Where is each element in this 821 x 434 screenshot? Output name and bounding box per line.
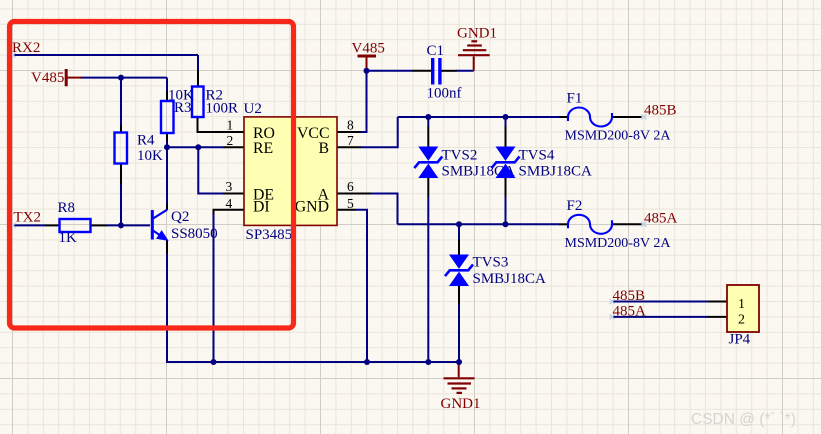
svg-text:1K: 1K [59,230,78,246]
pin R2 top [197,70,199,87]
IC U2 SP3485 body [244,117,337,225]
svg-text:U2: U2 [244,101,262,117]
resistor R3 [161,101,174,133]
power port V485 top [358,56,377,70]
pin3 DE stub [223,193,244,195]
svg-text:F1: F1 [567,91,583,107]
svg-text:7: 7 [347,133,354,148]
svg-text:RE: RE [253,140,273,157]
wire TVS2 bottom to bus [427,196,429,362]
wire junction V485 to R4 top [120,78,122,125]
pin R4 top [120,125,122,133]
wire R8 to Q2 base [106,224,150,226]
svg-text:100R: 100R [206,100,239,116]
wire RX2 vertical to R2 top [197,55,199,70]
svg-text:SS8050: SS8050 [171,226,218,242]
pin2 RE stub [223,146,244,148]
svg-text:SMBJ18CA: SMBJ18CA [473,271,547,287]
ground GND1 bottom [444,362,475,393]
node R3/RE/Q2 [164,144,170,150]
pin JP4-1 [708,301,728,303]
wire Q2 collector to RE [166,147,168,204]
TVS diode TVS3 [445,255,473,287]
svg-text:V485: V485 [352,41,385,57]
svg-text:TVS2: TVS2 [442,148,478,164]
node base/R4 [118,222,124,228]
node RE/DE [195,144,201,150]
svg-text:RX2: RX2 [12,40,40,56]
node bus/GNDpin [364,359,370,365]
wire pin6 A jog [370,194,398,225]
svg-text:485A: 485A [613,304,647,320]
pin C1 left [413,70,432,72]
svg-text:SMBJ18CA: SMBJ18CA [519,164,593,180]
pin F1 right wire to 485B [612,116,642,118]
svg-text:GND1: GND1 [457,26,497,42]
node bus/TVS3 [456,359,462,365]
transistor Q2 [152,210,167,240]
pin R3 bottom [166,133,168,141]
pin7 B stub [337,146,361,148]
svg-text:10K: 10K [137,148,163,164]
red highlight rectangle [10,22,294,329]
svg-text:TX2: TX2 [14,210,42,226]
svg-text:SP3485: SP3485 [246,227,293,243]
pin JP4-2 [708,316,728,318]
svg-text:F2: F2 [567,198,583,214]
pin F2 right wire to 485A [612,223,642,225]
svg-text:485B: 485B [644,103,677,119]
svg-text:R8: R8 [58,200,76,216]
wire 485B to JP4 [612,301,708,303]
wire RE to DE vertical jog [198,147,223,193]
wire RX2 horizontal [13,54,198,56]
pin TVS3 top [458,240,460,255]
svg-text:V485: V485 [31,70,64,86]
node B-rail/TVS4 [503,114,509,120]
svg-text:2: 2 [738,312,745,327]
node A-rail/TVS4 [503,221,509,227]
svg-text:MSMD200-8V 2A: MSMD200-8V 2A [565,129,672,144]
TVS diode TVS4 [492,147,520,179]
pin Q2 emitter [166,240,168,254]
svg-text:TVS3: TVS3 [473,255,509,271]
wire A rail [398,223,560,225]
wire TVS3 bottom to bus [458,304,460,362]
pin4 DI stub [214,210,245,214]
svg-text:C1: C1 [427,43,445,59]
svg-text:Q2: Q2 [171,209,189,225]
resistor R2 [192,87,204,118]
wire V485-left to R3 top [166,78,168,91]
wire-end cross markers [11,53,647,320]
wire pin7 B to rail [360,117,398,147]
pin TVS2 top [427,127,429,147]
svg-text:2: 2 [227,133,234,148]
ground GND1 top [458,41,490,71]
svg-text:5: 5 [347,196,354,211]
pin8 VCC stub [337,131,361,133]
svg-text:DI: DI [253,199,270,216]
wire TVS4 bottom stub [505,196,507,224]
pin TVS3 bottom [458,286,460,305]
pin R8 right [91,224,107,226]
svg-text:6: 6 [347,179,354,194]
wire R3 bottom to RE [166,140,168,147]
svg-text:8: 8 [347,117,354,132]
svg-text:1: 1 [738,297,745,312]
pin R2 bottom + pin1 RO [198,117,245,132]
wire R4 bottom to base [120,184,122,225]
wire B rail [398,116,560,118]
svg-text:CSDN @ (*´ `*): CSDN @ (*´ `*) [691,411,796,428]
wire RE net horizontal [167,146,223,148]
wire pin5 GND down to bus [355,210,367,362]
connector JP4 [727,285,759,332]
wire 485A to JP4 [612,316,708,318]
svg-text:JP4: JP4 [729,331,751,347]
svg-text:485B: 485B [613,288,646,304]
pin F2 left [559,223,568,225]
node bus/DI [211,359,217,365]
pin TVS2 bottom [427,178,429,197]
svg-text:GND1: GND1 [441,396,481,412]
pin C1 right [442,70,457,72]
svg-text:R4: R4 [137,133,155,149]
wire V485-top down to pin8 [360,69,367,132]
wire C1 right to GND1-top [456,70,474,72]
node B-rail/TVS2 [425,114,431,120]
svg-text:R3: R3 [174,100,192,116]
resistor R4 [115,133,128,164]
svg-text:GND: GND [295,199,329,216]
TVS diode TVS2 [414,147,442,179]
svg-text:B: B [318,140,329,157]
pin R4 bottom [120,164,122,185]
power port V485 left [66,69,81,86]
resistor R8 [60,219,91,232]
wire TX2 to R8 [13,224,46,226]
wire V485-left horizontal [80,77,167,79]
pin6 A stub [337,193,371,195]
node A-rail/TVS3 [456,221,462,227]
node V485-top [364,68,370,74]
wire DI down to bottom bus [213,213,215,362]
svg-text:4: 4 [226,196,233,211]
wire TVS4 top stub [505,117,507,127]
svg-text:100nf: 100nf [427,86,462,102]
pin TVS4 bottom [505,178,507,197]
svg-text:1: 1 [227,117,234,132]
pin TVS4 top [505,127,507,147]
wire TVS2 top stub [427,117,429,127]
svg-text:MSMD200-8V 2A: MSMD200-8V 2A [565,236,672,251]
svg-text:TVS4: TVS4 [519,148,555,164]
capacitor C1 [431,58,442,85]
fuse F2 [568,215,612,234]
pin Q2 collector [166,204,168,211]
wire V485-top to C1 [367,70,414,72]
fuse F1 [568,108,612,127]
wire TVS3 top stub [458,224,460,240]
wire Q2 emitter down [167,253,459,362]
pin R3 top [166,91,168,101]
svg-text:485A: 485A [644,211,678,227]
node bus/TVS2 [425,359,431,365]
node V485/R4 [118,75,124,81]
pin R8 left [46,224,60,226]
pin F1 left [559,116,568,118]
pin5 GND stub [337,209,356,211]
svg-text:3: 3 [226,179,233,194]
